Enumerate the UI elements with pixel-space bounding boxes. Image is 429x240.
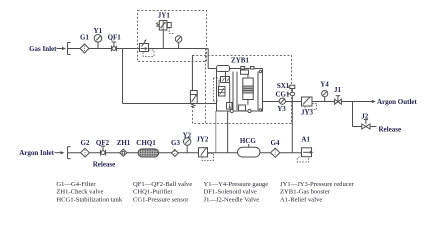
svg-text:G3: G3 xyxy=(171,139,180,147)
svg-text:ZYB1: ZYB1 xyxy=(231,57,249,65)
svg-text:DF1-Solenoid valve: DF1-Solenoid valve xyxy=(204,189,257,196)
svg-text:JY2: JY2 xyxy=(196,136,209,144)
svg-text:Release: Release xyxy=(379,125,402,133)
svg-text:G1: G1 xyxy=(80,34,89,42)
svg-text:Y3: Y3 xyxy=(277,105,286,113)
svg-text:QF2: QF2 xyxy=(96,139,110,147)
svg-text:G2: G2 xyxy=(81,139,90,147)
svg-text:J2: J2 xyxy=(361,113,369,121)
svg-text:ZH1: ZH1 xyxy=(117,139,131,147)
svg-text:QF1: QF1 xyxy=(108,34,122,42)
svg-text:HCG1-Stabilization tank: HCG1-Stabilization tank xyxy=(56,196,122,203)
svg-text:CHQ1: CHQ1 xyxy=(136,139,156,147)
svg-text:G4: G4 xyxy=(271,139,280,147)
svg-text:Y1—Y4-Pressure gauge: Y1—Y4-Pressure gauge xyxy=(204,181,269,188)
svg-text:J1: J1 xyxy=(334,86,342,94)
svg-text:Y2: Y2 xyxy=(183,132,192,140)
svg-text:ZYB1-Gas booster: ZYB1-Gas booster xyxy=(280,189,331,196)
svg-text:CG1-Pressure sensor: CG1-Pressure sensor xyxy=(133,196,189,203)
svg-text:ZH1-Check valve: ZH1-Check valve xyxy=(56,189,103,196)
svg-text:Argon Inlet: Argon Inlet xyxy=(19,149,54,157)
svg-text:Release: Release xyxy=(93,161,116,169)
svg-text:A1-Relief valve: A1-Relief valve xyxy=(280,196,322,203)
svg-text:Argon Outlet: Argon Outlet xyxy=(377,98,418,106)
svg-text:Y1: Y1 xyxy=(94,27,103,35)
svg-text:HCG: HCG xyxy=(240,137,257,145)
svg-text:A1: A1 xyxy=(301,135,310,143)
svg-text:JY1—JY3-Pressure reducer: JY1—JY3-Pressure reducer xyxy=(280,181,355,188)
svg-text:G1—G4-Filter: G1—G4-Filter xyxy=(56,181,96,188)
svg-text:CG1: CG1 xyxy=(276,91,291,99)
svg-text:CHQ1-Purifier: CHQ1-Purifier xyxy=(133,189,173,196)
svg-text:QF1—QF2-Ball valve: QF1—QF2-Ball valve xyxy=(133,181,192,188)
svg-text:JY3: JY3 xyxy=(301,109,314,117)
svg-text:Y4: Y4 xyxy=(320,81,329,89)
svg-text:Gas Inlet: Gas Inlet xyxy=(29,45,57,53)
svg-text:JY1: JY1 xyxy=(158,12,171,20)
svg-text:SX1: SX1 xyxy=(277,82,290,90)
svg-text:J1—J2-Needle Valve: J1—J2-Needle Valve xyxy=(204,196,260,203)
